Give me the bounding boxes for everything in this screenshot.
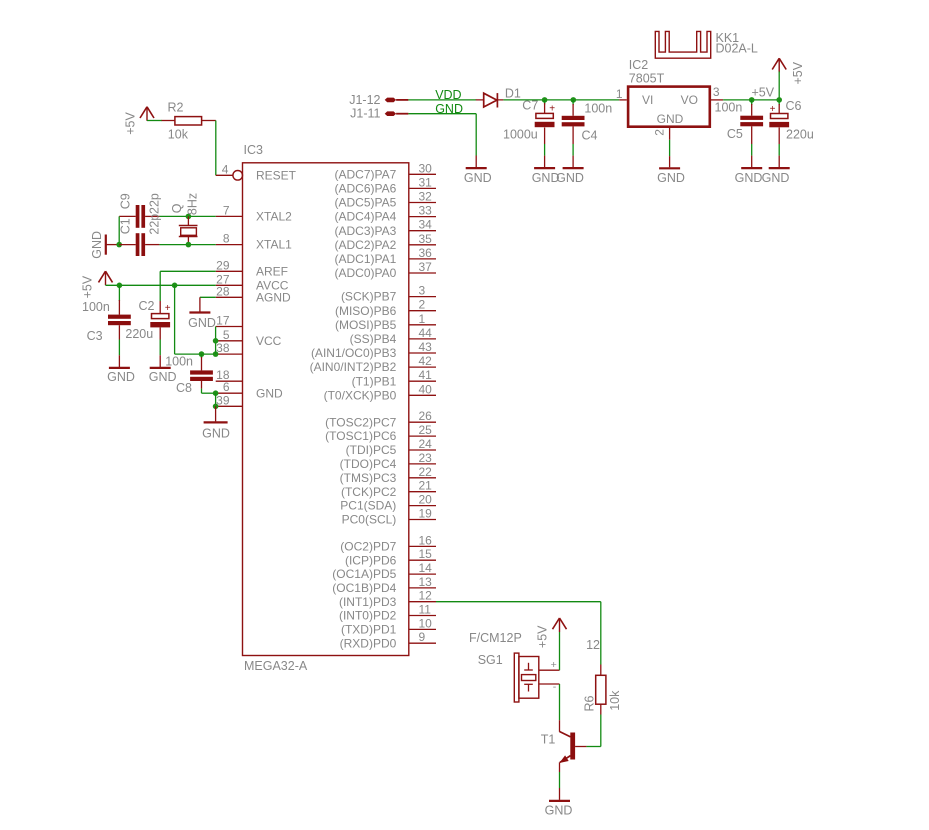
supply +5V (R2) (124, 107, 154, 135)
IC3 right pin 24 (TDI)PC5 (346, 437, 436, 457)
microcontroller IC3 box (243, 163, 409, 656)
value 7805T (629, 72, 665, 86)
wire C9-C1 link (118, 216, 120, 244)
svg-text:(AIN0/INT2)PB2: (AIN0/INT2)PB2 (310, 360, 397, 374)
svg-text:D02A-L: D02A-L (716, 42, 758, 56)
svg-text:(TMS)PC3: (TMS)PC3 (340, 471, 397, 485)
svg-text:34: 34 (419, 218, 433, 232)
svg-text:(ADC2)PA2: (ADC2)PA2 (335, 238, 397, 252)
wire +5V to SG1 + (559, 632, 561, 670)
svg-text:9: 9 (419, 630, 426, 644)
svg-text:(OC1B)PD4: (OC1B)PD4 (332, 581, 396, 595)
svg-text:J1-11: J1-11 (350, 107, 380, 121)
junction dot C7 tap (542, 97, 548, 103)
svg-text:16: 16 (419, 533, 433, 547)
wire +5V arrow to rail (778, 72, 780, 100)
svg-text:5: 5 (223, 328, 230, 342)
junction dot pin5 row (213, 338, 219, 344)
wire VDD J1-12 to D1 (408, 99, 476, 101)
svg-text:19: 19 (419, 507, 433, 521)
svg-text:PC0(SCL): PC0(SCL) (342, 513, 397, 527)
svg-text:(ADC0)PA0: (ADC0)PA0 (335, 266, 397, 280)
svg-text:(INT1)PD3: (INT1)PD3 (339, 595, 397, 609)
svg-text:35: 35 (419, 232, 433, 246)
svg-text:44: 44 (419, 326, 433, 340)
IC3 right pin 12 (INT1)PD3 (339, 589, 436, 609)
wire D1 to IC2 VI (503, 99, 619, 101)
svg-text:25: 25 (419, 423, 433, 437)
capacitor C4 (562, 100, 613, 144)
svg-text:(OC1A)PD5: (OC1A)PD5 (332, 567, 396, 581)
value MEGA32-A (244, 659, 308, 673)
ground GND (T1) (545, 788, 573, 817)
junction dot C5 tap (749, 97, 755, 103)
ground GND (IC2) (657, 156, 685, 185)
wire base lead (575, 746, 586, 748)
wire J1-11 pad lead (396, 113, 408, 115)
wire C5 to GND (751, 144, 753, 156)
wire R2 to RESET (215, 121, 217, 176)
IC3 left pin 27 (216, 272, 243, 286)
IC3 right pin 11 (INT0)PD2 (339, 603, 436, 623)
IC3 pin name XTAL1 (256, 238, 292, 252)
svg-text:+: + (551, 659, 557, 671)
net label GND (J1-11 net) (435, 102, 463, 116)
junction dot AVCC riser (172, 283, 178, 289)
IC3 pin name AVCC (256, 278, 289, 292)
ground GND (C7) (532, 156, 560, 186)
svg-text:GND: GND (657, 171, 685, 185)
net label VDD (435, 88, 461, 102)
svg-text:Q: Q (170, 203, 184, 213)
svg-text:36: 36 (419, 246, 433, 260)
svg-text:D1: D1 (505, 86, 521, 100)
svg-text:VO: VO (681, 93, 698, 107)
junction dot pin6 row (213, 390, 219, 396)
wire AVCC net (106, 284, 216, 286)
IC3 right pin 23 (TDO)PC4 (340, 451, 436, 471)
svg-text:41: 41 (419, 368, 433, 382)
svg-text:10k: 10k (168, 127, 189, 141)
IC3 right pin 14 (OC1A)PD5 (332, 561, 436, 581)
SG1 pin + lead (539, 659, 560, 671)
svg-text:GND: GND (256, 386, 283, 400)
svg-text:220u: 220u (786, 127, 814, 141)
IC2 pin 2 GND (652, 112, 683, 140)
svg-text:30: 30 (419, 161, 433, 175)
wire C9 left lead (119, 215, 136, 217)
svg-text:32: 32 (419, 190, 433, 204)
svg-text:C8: C8 (176, 381, 192, 395)
IC3 right pin 36 (ADC1)PA1 (335, 246, 436, 266)
IC3 right pin 19 PC0(SCL) (342, 507, 436, 527)
svg-text:(INT0)PD2: (INT0)PD2 (339, 609, 397, 623)
wire C3 to GND (118, 340, 120, 356)
svg-text:(ADC1)PA1: (ADC1)PA1 (335, 252, 397, 266)
IC3 pin 4 RESET stub (216, 162, 243, 180)
IC3 left pin 8 (216, 232, 243, 246)
svg-text:100n: 100n (82, 300, 110, 314)
wire +5V to R2 (147, 120, 162, 122)
svg-text:(SCK)PB7: (SCK)PB7 (341, 290, 397, 304)
svg-text:1000u: 1000u (503, 128, 538, 142)
IC3 right pin 20 PC1(SDA) (340, 493, 436, 513)
capacitor C5 (727, 100, 763, 144)
ground GND (C2) (149, 355, 177, 384)
junction dot pin39 row (213, 404, 219, 410)
label T1 (541, 733, 556, 747)
capacitor C1 (119, 214, 162, 256)
junction dot Q bottom (186, 242, 192, 248)
IC3 right pin 16 (OC2)PD7 (340, 533, 436, 553)
wire AGND net (200, 296, 216, 298)
IC3 left pin 6 (216, 380, 243, 394)
svg-text:C9: C9 (119, 193, 133, 209)
svg-text:+5V: +5V (536, 625, 550, 648)
svg-text:-: - (553, 681, 557, 693)
capacitor C7 (503, 99, 555, 145)
label 100n (C5) (715, 101, 743, 115)
svg-text:(T0/XCK)PB0: (T0/XCK)PB0 (324, 388, 397, 402)
IC3 right pin 2 (MISO)PB6 (335, 298, 436, 318)
wire C4 to GND (572, 144, 574, 156)
IC3 left pin 38 (216, 341, 243, 355)
resistor R2 (162, 101, 216, 142)
capacitor C8 (176, 354, 213, 395)
IC3 right pin 35 (ADC2)PA2 (335, 232, 436, 252)
resistor R6 (583, 665, 622, 715)
junction dot C6 tap (776, 97, 782, 103)
IC3 right pin 9 (RXD)PD0 (340, 630, 436, 650)
IC3 left pin 18 (216, 368, 243, 382)
IC3 right pin 21 (TCK)PC2 (341, 479, 436, 499)
wire AVCC riser to VCC row (175, 285, 216, 354)
svg-text:SG1: SG1 (478, 653, 503, 667)
label F/CM12P (469, 631, 522, 645)
svg-text:IC2: IC2 (629, 58, 649, 72)
svg-text:(TOSC1)PC6: (TOSC1)PC6 (325, 429, 396, 443)
svg-text:XTAL1: XTAL1 (256, 238, 292, 252)
svg-text:23: 23 (419, 451, 433, 465)
junction dot C8 tap (199, 351, 205, 357)
svg-text:(TDI)PC5: (TDI)PC5 (346, 443, 397, 457)
IC3 right pin 33 (ADC4)PA4 (335, 204, 436, 224)
svg-text:7: 7 (223, 203, 230, 217)
svg-text:C1: C1 (119, 218, 133, 234)
svg-text:C2: C2 (139, 299, 155, 313)
wire XTAL2 net (159, 215, 215, 217)
svg-text:+5V: +5V (124, 112, 138, 135)
IC3 pin name XTAL2 (256, 210, 292, 224)
IC3 right pin 10 (TXD)PD1 (341, 616, 436, 636)
junction dot Q top (186, 214, 192, 220)
svg-text:(MISO)PB6: (MISO)PB6 (335, 304, 397, 318)
svg-text:14: 14 (419, 561, 433, 575)
svg-text:+: + (165, 303, 171, 314)
ground GND (XTAL) rotated (90, 231, 119, 259)
svg-text:+5V: +5V (791, 61, 805, 84)
svg-text:24: 24 (419, 437, 433, 451)
svg-text:R2: R2 (168, 101, 184, 115)
IC3 pin name AGND (256, 290, 291, 304)
IC3 right pin 43 (AIN1/OC0)PB3 (311, 340, 436, 360)
supply +5V (AVCC) (80, 271, 112, 298)
wire IC2 VO to +5V (723, 99, 779, 101)
IC3 right pin 30 (ADC7)PA7 (335, 161, 436, 181)
ground GND (C5) (735, 156, 763, 186)
pad J1-11 (350, 107, 396, 121)
junction dot C4 tap (571, 97, 577, 103)
svg-text:100n: 100n (584, 101, 612, 115)
supply +5V (C6 area) (772, 58, 805, 84)
svg-text:IC3: IC3 (244, 143, 264, 157)
transistor T1 (559, 720, 575, 763)
svg-text:(ADC4)PA4: (ADC4)PA4 (335, 210, 397, 224)
svg-text:(TOSC2)PC7: (TOSC2)PC7 (325, 415, 396, 429)
svg-text:F/CM12P: F/CM12P (469, 631, 522, 645)
svg-text:R6: R6 (583, 695, 597, 711)
svg-text:AGND: AGND (256, 290, 291, 304)
svg-text:7805T: 7805T (629, 72, 665, 86)
svg-text:C7: C7 (522, 99, 538, 113)
IC3 left pin 7 (216, 203, 243, 217)
wire C9 right lead (145, 215, 159, 217)
IC3 pin name RESET (256, 168, 297, 182)
IC3 left pin 39 (216, 393, 243, 407)
svg-text:XTAL2: XTAL2 (256, 210, 292, 224)
junction dot C1 left (116, 242, 122, 248)
svg-text:22p: 22p (147, 193, 161, 214)
IC3 right pin 42 (AIN0/INT2)PB2 (310, 354, 436, 374)
svg-text:(MOSI)PB5: (MOSI)PB5 (335, 318, 397, 332)
svg-text:(TCK)PC2: (TCK)PC2 (341, 485, 397, 499)
wire C7 to GND (544, 144, 546, 156)
svg-text:12: 12 (586, 638, 600, 652)
svg-text:28: 28 (216, 284, 230, 298)
svg-text:GND: GND (107, 370, 135, 384)
capacitor C2 (125, 299, 170, 341)
capacitor C3 (87, 285, 131, 343)
IC3 right pin 37 (ADC0)PA0 (335, 260, 436, 280)
svg-text:21: 21 (419, 479, 433, 493)
IC3 right pin 26 (TOSC2)PC7 (325, 409, 436, 429)
IC3 right pin 40 (T0/XCK)PB0 (324, 382, 436, 402)
IC3 right pin 15 (ICP)PD6 (345, 547, 436, 567)
svg-text:RESET: RESET (256, 168, 297, 182)
IC3 left pin 17 (216, 314, 243, 328)
wire J1-12 pad lead (396, 99, 408, 101)
wire C2 to GND (159, 340, 161, 356)
svg-text:100n: 100n (165, 354, 193, 368)
svg-text:(SS)PB4: (SS)PB4 (350, 332, 397, 346)
svg-text:T1: T1 (541, 733, 556, 747)
voltage regulator IC2 box (628, 87, 710, 127)
svg-text:J1-12: J1-12 (349, 93, 380, 107)
svg-text:3: 3 (713, 85, 720, 99)
svg-text:220u: 220u (125, 327, 153, 341)
svg-text:GND: GND (90, 231, 104, 259)
label 100n (C8) (165, 354, 193, 368)
crystal Q (170, 193, 199, 245)
svg-text:4: 4 (222, 162, 229, 176)
buzzer SG1 (514, 653, 539, 702)
svg-text:(T1)PB1: (T1)PB1 (352, 374, 397, 388)
IC3 right pin 13 (OC1B)PD4 (332, 575, 436, 595)
wire AREF net (160, 271, 216, 301)
svg-text:1: 1 (616, 87, 623, 101)
wire XTAL1 net (159, 244, 215, 246)
IC2 pin 3 VO (681, 85, 723, 107)
svg-text:42: 42 (419, 354, 433, 368)
svg-text:33: 33 (419, 204, 433, 218)
label KK1 (716, 31, 740, 45)
supply +5V (SG1) (536, 618, 567, 648)
wire C1 left lead (119, 244, 136, 246)
svg-text:GND: GND (762, 171, 790, 185)
svg-text:26: 26 (419, 409, 433, 423)
ground GND (C3) (107, 355, 135, 384)
svg-text:+5V: +5V (80, 275, 94, 298)
net label 12 (586, 638, 600, 652)
svg-text:(ICP)PD6: (ICP)PD6 (345, 553, 397, 567)
IC3 right pin 32 (ADC5)PA5 (335, 190, 436, 210)
IC3 pin name GND (256, 386, 283, 400)
wire R6 to base (586, 715, 600, 747)
wire PD3 net (436, 602, 601, 665)
svg-text:10k: 10k (608, 690, 622, 711)
svg-text:VI: VI (642, 93, 653, 107)
svg-text:38: 38 (216, 341, 230, 355)
wire J1-11 GND net (408, 114, 476, 156)
svg-text:(TXD)PD1: (TXD)PD1 (341, 623, 397, 637)
IC3 left pin 5 (216, 328, 243, 342)
svg-text:22p: 22p (147, 214, 161, 235)
svg-text:(RXD)PD0: (RXD)PD0 (340, 636, 397, 650)
svg-text:(ADC3)PA3: (ADC3)PA3 (335, 224, 397, 238)
svg-text:8: 8 (223, 232, 230, 246)
svg-text:+5V: +5V (752, 86, 775, 100)
svg-text:GND: GND (545, 803, 573, 817)
svg-text:GND: GND (657, 112, 684, 126)
svg-text:3: 3 (419, 284, 426, 298)
svg-text:+: + (549, 104, 555, 115)
svg-text:C3: C3 (87, 329, 103, 343)
wire C6 to GND (778, 144, 780, 156)
IC3 left pin 28 (216, 284, 243, 298)
label IC2 (629, 58, 649, 72)
heatsink KK1 (655, 31, 710, 58)
svg-text:PC1(SDA): PC1(SDA) (340, 499, 396, 513)
wire SG1 - to collector (559, 684, 561, 720)
label SG1 (478, 653, 503, 667)
svg-text:39: 39 (216, 393, 230, 407)
ground GND (AGND) (188, 297, 216, 330)
svg-text:(AIN1/OC0)PB3: (AIN1/OC0)PB3 (311, 346, 397, 360)
label 100n (C3) (82, 300, 110, 314)
svg-text:GND: GND (202, 427, 230, 441)
svg-text:8Hz: 8Hz (185, 193, 199, 215)
wire VCC rail upper (215, 327, 217, 355)
IC3 left pin 29 (216, 258, 243, 272)
svg-text:17: 17 (216, 314, 230, 328)
IC3 right pin 3 (SCK)PB7 (341, 284, 436, 304)
capacitor C6 (769, 99, 814, 144)
label D1 (505, 86, 521, 100)
svg-text:31: 31 (419, 175, 433, 189)
IC3 right pin 22 (TMS)PC3 (340, 465, 436, 485)
svg-text:VCC: VCC (256, 334, 282, 348)
svg-text:2: 2 (419, 298, 426, 312)
svg-text:(OC2)PD7: (OC2)PD7 (340, 540, 396, 554)
ground GND (IC3 rail) (202, 406, 230, 440)
IC3 right pin 41 (T1)PB1 (352, 368, 436, 388)
IC2 pin 1 VI (616, 87, 654, 107)
svg-text:20: 20 (419, 493, 433, 507)
svg-text:1: 1 (419, 312, 426, 326)
svg-text:GND: GND (149, 370, 177, 384)
svg-text:100n: 100n (715, 101, 743, 115)
ground GND (C6) (762, 156, 790, 186)
svg-text:+: + (770, 104, 776, 115)
svg-text:15: 15 (419, 547, 433, 561)
diode D1 (484, 93, 498, 107)
IC3 right pin 31 (ADC6)PA6 (335, 175, 436, 195)
IC3 pin name AREF (256, 264, 288, 278)
svg-text:GND: GND (464, 171, 492, 185)
IC3 right pin 25 (TOSC1)PC6 (325, 423, 436, 443)
svg-text:6: 6 (223, 380, 230, 394)
svg-text:GND: GND (188, 316, 216, 330)
svg-text:10: 10 (419, 616, 433, 630)
wire GND rail lower (215, 393, 217, 406)
svg-text:C4: C4 (582, 129, 598, 143)
IC3 pin name VCC (256, 334, 282, 348)
svg-text:2: 2 (652, 129, 666, 136)
capacitor C9 (119, 193, 162, 228)
junction dot pin38 row (213, 351, 219, 357)
svg-text:22: 22 (419, 465, 433, 479)
svg-text:C5: C5 (727, 127, 743, 141)
svg-text:C6: C6 (786, 99, 802, 113)
ground GND (J1-11) (464, 156, 492, 186)
svg-text:AREF: AREF (256, 264, 288, 278)
wire C8 to GND rail (202, 389, 216, 394)
svg-text:MEGA32-A: MEGA32-A (244, 659, 308, 673)
IC3 right pin 44 (SS)PB4 (350, 326, 436, 346)
ground GND (C4) (556, 156, 584, 186)
svg-text:43: 43 (419, 340, 433, 354)
SG1 pin - lead (539, 681, 560, 693)
wire C1 right lead (145, 244, 159, 246)
IC3 right pin 1 (MOSI)PB5 (335, 312, 436, 332)
wire emitter to GND (559, 762, 561, 788)
label IC3 (244, 143, 264, 157)
svg-text:GND: GND (556, 171, 584, 185)
svg-text:(ADC5)PA5: (ADC5)PA5 (335, 196, 397, 210)
svg-text:GND: GND (735, 171, 763, 185)
net label +5V (752, 86, 775, 100)
wire IC2 GND pin (669, 140, 671, 156)
wire D1 lead (476, 99, 504, 101)
svg-text:(ADC7)PA7: (ADC7)PA7 (335, 167, 397, 181)
svg-text:11: 11 (419, 603, 432, 617)
svg-text:37: 37 (419, 260, 433, 274)
pad J1-12 (349, 93, 396, 107)
svg-text:13: 13 (419, 575, 433, 589)
IC3 right pin 34 (ADC3)PA3 (335, 218, 436, 238)
value D02A-L (716, 42, 758, 56)
svg-text:12: 12 (419, 589, 433, 603)
